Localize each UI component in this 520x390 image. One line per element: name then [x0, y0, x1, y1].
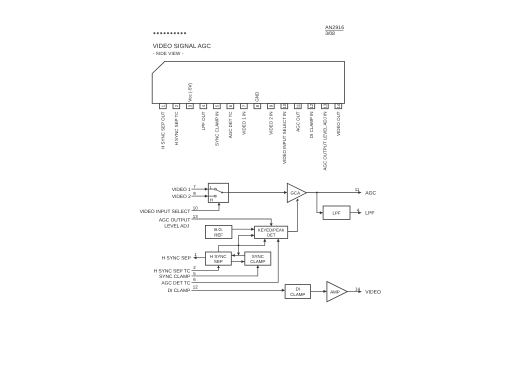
svg-text:B.G.: B.G.: [214, 227, 223, 232]
pin 4 box: [200, 104, 207, 109]
wire VIDEO 1 input: [192, 188, 209, 191]
svg-text:5: 5: [193, 271, 196, 276]
svg-text:SYNC CLAMP: SYNC CLAMP: [159, 274, 190, 280]
node junction on GCA output: [316, 192, 318, 194]
svg-text:14: 14: [336, 103, 341, 108]
svg-text:SEP: SEP: [214, 259, 223, 264]
wire H SYNC SEP top to keyed/peak bottom: [219, 239, 267, 253]
SYNC CLAMP block: [245, 252, 271, 265]
IC package outline U1: [152, 61, 344, 103]
svg-text:LEVEL ADJ: LEVEL ADJ: [164, 224, 189, 230]
svg-text:AGC OUTPUT: AGC OUTPUT: [159, 217, 191, 223]
op-amp GCA: [287, 183, 306, 202]
svg-text:3/08: 3/08: [325, 31, 335, 37]
svg-text:Vcc (-5V): Vcc (-5V): [188, 83, 193, 102]
svg-text:SYNC: SYNC: [252, 254, 264, 259]
svg-text:AGC: AGC: [365, 190, 376, 196]
KEYED/PEAK DET block: [255, 226, 288, 238]
svg-text:VIDEO INPUT SELECT: VIDEO INPUT SELECT: [140, 209, 191, 215]
svg-text:12: 12: [193, 285, 198, 290]
svg-text:H SYNC SEP: H SYNC SEP: [162, 256, 191, 262]
svg-text:H SYNC SEP TC: H SYNC SEP TC: [154, 268, 191, 274]
pin 2 box: [173, 104, 180, 109]
svg-text:AGC DET TC: AGC DET TC: [161, 280, 190, 286]
wire h sync sep to sync clamp lower: [231, 260, 245, 263]
label AGC OUTPUT LEVEL ADJ: [159, 217, 191, 229]
svg-text:VIDEO INPUT SELECT IN: VIDEO INPUT SELECT IN: [282, 112, 287, 164]
svg-text:VIDEO 2 IN: VIDEO 2 IN: [269, 112, 274, 135]
LPF block: [323, 206, 350, 219]
svg-text:2: 2: [193, 265, 196, 270]
pin 10 box: [281, 103, 288, 109]
svg-text:GCA: GCA: [291, 191, 301, 196]
svg-text:H SYNC: H SYNC: [210, 254, 227, 259]
svg-text:CLAMP: CLAMP: [290, 292, 305, 297]
wire keyed/peak det output to GCA control: [288, 199, 299, 232]
doc number AN2916: [325, 25, 344, 37]
svg-text:LPF: LPF: [365, 211, 374, 217]
svg-text:4: 4: [357, 207, 360, 212]
svg-text:SYNC CLAMP IN: SYNC CLAMP IN: [215, 112, 220, 146]
video input switch box S1: [208, 183, 228, 202]
wire DI CLAMP input: [192, 289, 286, 292]
svg-text:DI: DI: [296, 287, 300, 292]
svg-text:VIDEO SIGNAL AGC: VIDEO SIGNAL AGC: [153, 43, 212, 50]
svg-text:1: 1: [194, 252, 197, 257]
header asterisks row: [153, 32, 186, 34]
wire DI CLAMP to AMP: [311, 290, 327, 293]
svg-text:VIDEO: VIDEO: [365, 290, 381, 296]
svg-text:VIDEO OUT: VIDEO OUT: [336, 111, 341, 136]
svg-text:6: 6: [193, 277, 196, 282]
wire VIDEO 2 input: [192, 195, 209, 198]
svg-text:10: 10: [193, 205, 198, 210]
svg-text:GND: GND: [254, 91, 259, 102]
wire video input select to switch: [192, 203, 221, 211]
svg-text:H SYNC SEP OUT: H SYNC SEP OUT: [161, 111, 166, 149]
svg-text:AGC OUT: AGC OUT: [296, 111, 301, 132]
svg-text:9: 9: [193, 191, 196, 196]
wire video net to keyed/peak lower-left input: [237, 234, 255, 256]
H SYNC SEP block: [205, 252, 231, 265]
pin 6 box: [227, 104, 234, 109]
svg-text:DET: DET: [267, 233, 276, 238]
svg-text:VIDEO 1: VIDEO 1: [172, 187, 191, 193]
svg-text:H: H: [210, 197, 213, 202]
svg-text:AMP: AMP: [330, 289, 340, 294]
svg-text:CLAMP: CLAMP: [250, 259, 265, 264]
node junction at video net: [238, 245, 240, 247]
pin 7 box: [241, 104, 248, 109]
op-amp AMP: [327, 282, 348, 302]
pin 12 box: [308, 103, 315, 109]
wire AMP output to pin 14 VIDEO: [347, 290, 361, 293]
svg-text:- SIDE VIEW -: - SIDE VIEW -: [153, 51, 184, 56]
svg-text:13: 13: [193, 214, 198, 219]
wire B.G. REF to keyed/peak det: [232, 228, 255, 231]
svg-text:DI CLAMP: DI CLAMP: [168, 288, 191, 294]
wire switch output to GCA: [229, 191, 288, 194]
svg-text:11: 11: [295, 103, 300, 108]
svg-text:VIDEO 1 IN: VIDEO 1 IN: [242, 112, 247, 135]
wire AGC det line to keyed/peak bottom right: [192, 239, 280, 283]
B.G. REF block: [205, 225, 232, 238]
svg-text:7: 7: [193, 184, 196, 189]
svg-text:14: 14: [355, 286, 360, 291]
pin 9 box: [268, 104, 275, 109]
DI CLAMP block: [285, 285, 310, 299]
wire sync clamp to h sync sep upper: [231, 254, 245, 257]
svg-text:LPF OUT: LPF OUT: [201, 111, 206, 130]
svg-text:H SYNC SEP TC: H SYNC SEP TC: [174, 111, 179, 146]
svg-text:VIDEO 2: VIDEO 2: [172, 194, 191, 200]
pin 5 box: [214, 104, 221, 109]
wire AGC output level adj to keyed/peak det top: [192, 219, 273, 226]
wire H SYNC SEP output to pin 1: [193, 256, 205, 259]
svg-text:AGC OUTPUT LEVEL ADJ IN: AGC OUTPUT LEVEL ADJ IN: [323, 112, 328, 171]
pin 13 box: [322, 103, 329, 109]
wire h sync sep tc to block bottom: [192, 265, 220, 270]
wire LPF output to pin 4: [350, 211, 362, 214]
svg-text:12: 12: [309, 103, 314, 108]
svg-text:AGC DET TC: AGC DET TC: [228, 111, 233, 139]
pin 3 box: [187, 104, 194, 109]
svg-text:LPF: LPF: [332, 211, 340, 216]
svg-text:10: 10: [282, 103, 287, 108]
svg-text:DI CLAMP IN: DI CLAMP IN: [309, 112, 314, 139]
pin 1 box: [160, 104, 167, 109]
wire sync clamp pin to block bottom: [192, 265, 260, 276]
pin 8 box: [254, 104, 261, 109]
wire junction down to LPF: [317, 193, 323, 215]
pin 14 box: [335, 103, 342, 109]
pin 11 box: [295, 103, 302, 108]
svg-text:13: 13: [322, 103, 327, 108]
svg-text:REF: REF: [214, 233, 223, 238]
wire GCA output to pin 11 AGC: [307, 191, 362, 194]
svg-text:11: 11: [355, 187, 360, 192]
